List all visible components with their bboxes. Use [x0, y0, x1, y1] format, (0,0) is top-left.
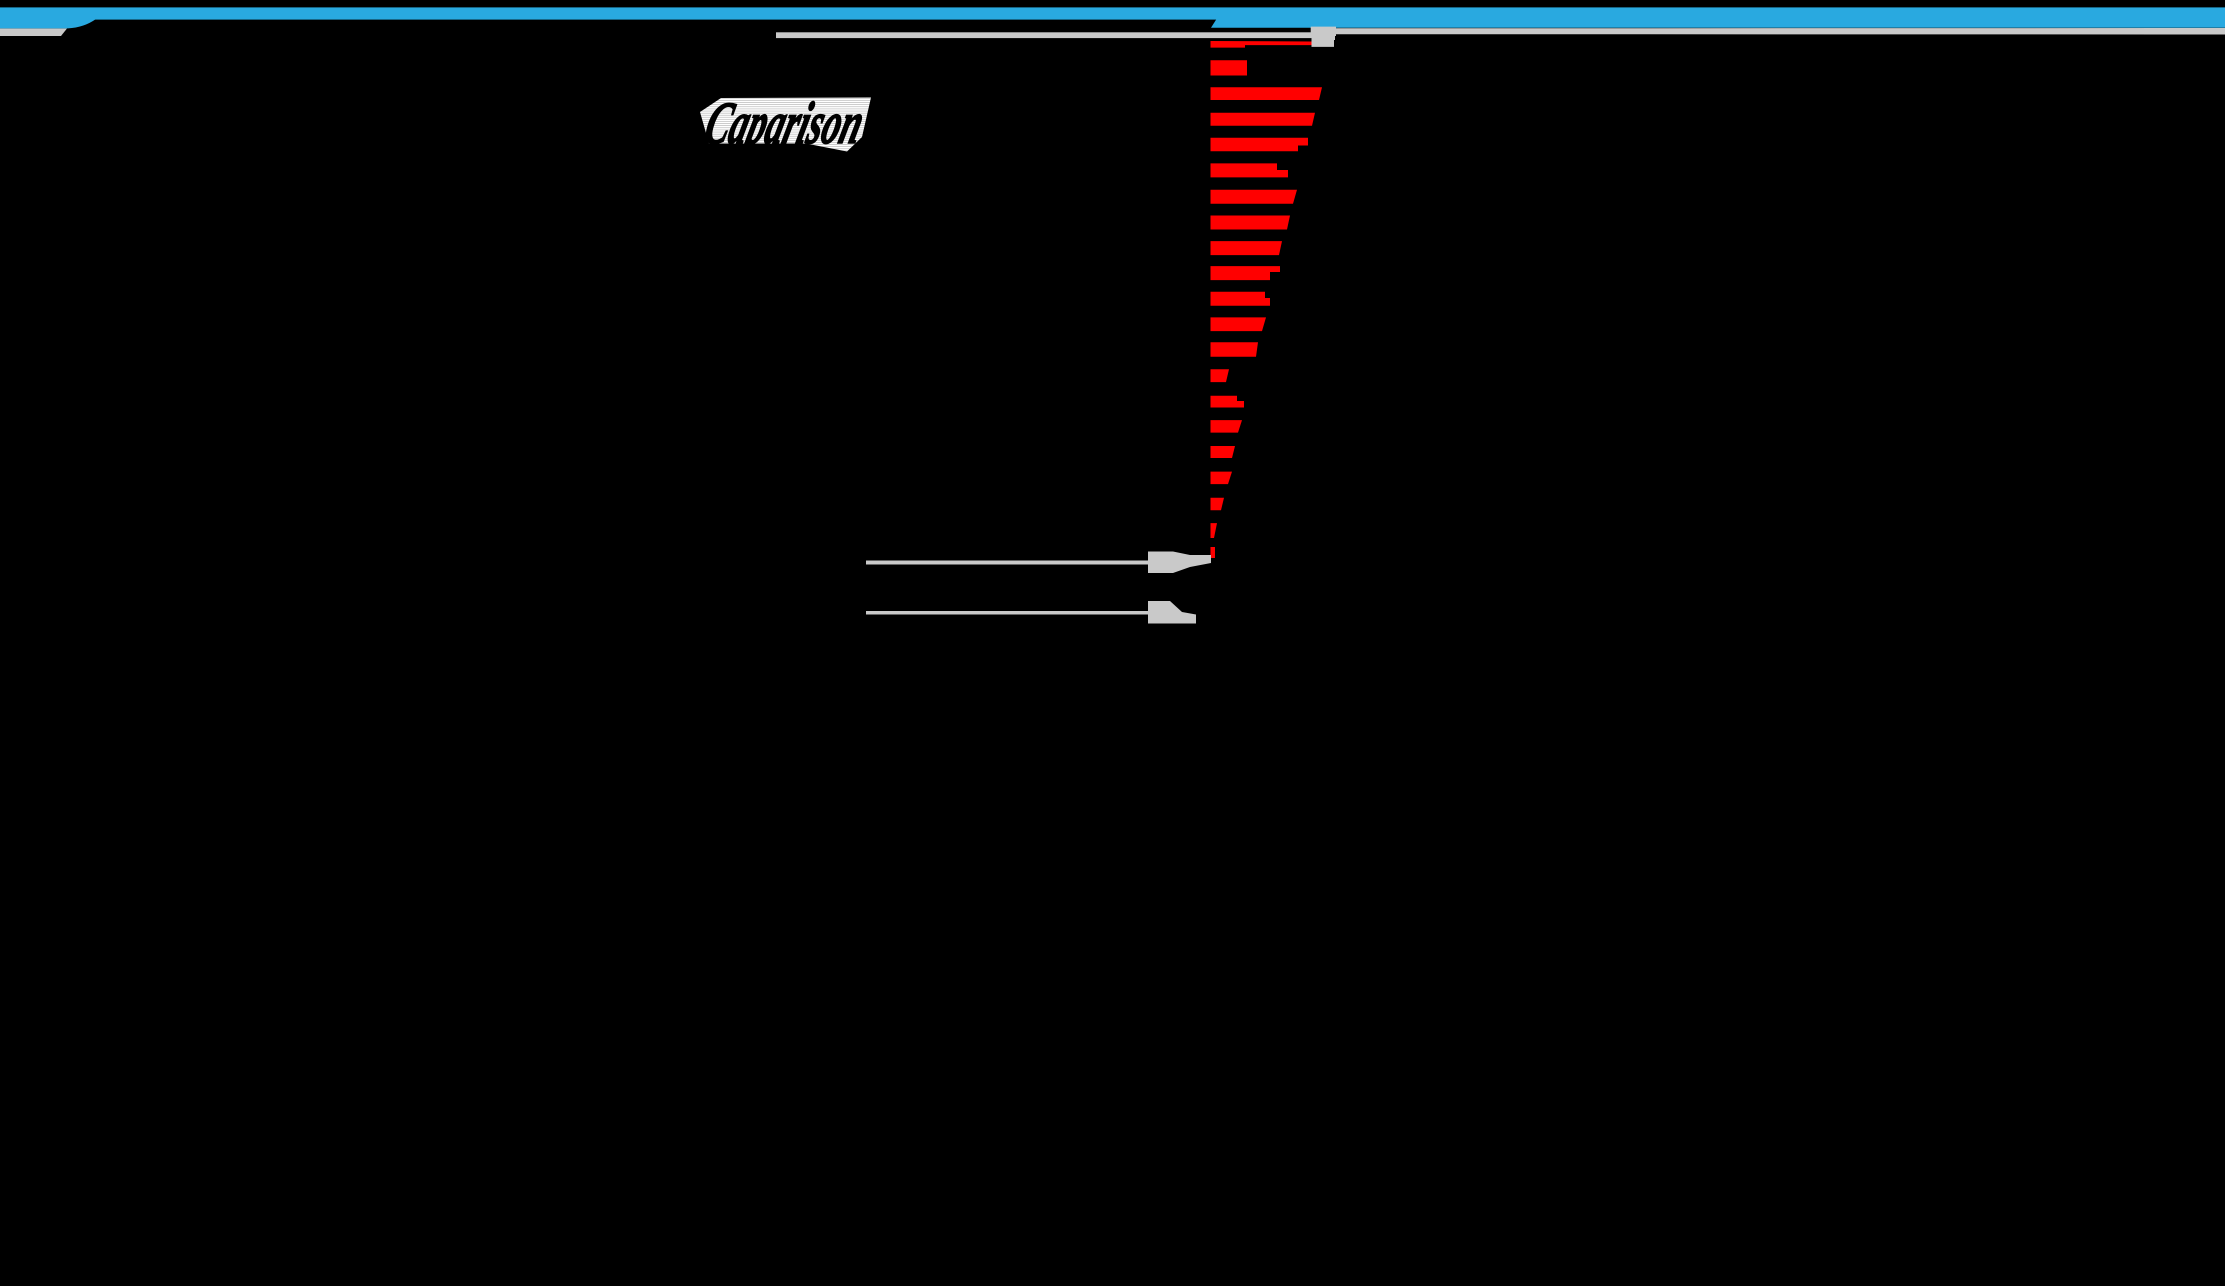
- svg-text:Caparison: Caparison: [698, 91, 871, 157]
